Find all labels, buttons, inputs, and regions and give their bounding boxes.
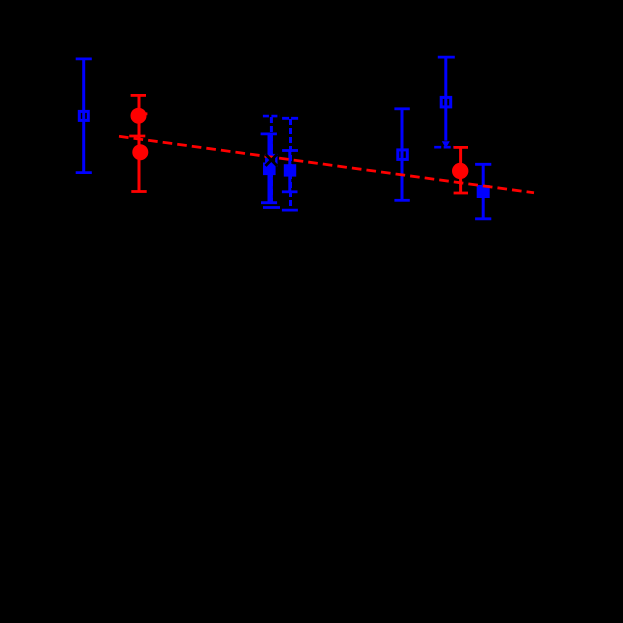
E6: red errorbar with filled circle, x=460.6 [454,147,468,193]
E7: blue errorbar with filled square, x=483.2 [475,164,491,219]
E5: blue errorbar with open square, x=402 [394,109,409,201]
E3R: cluster at x~290: dashed outer bar + solid inner bar + filled square [282,118,299,210]
E4: blue errorbar with open square and down arrow, x=445.8 [434,57,455,147]
E2: red errorbar with two filled circles, x=139 [129,95,147,191]
E3L black X marker on top [266,154,278,166]
E1: blue errorbar with open square, x=83.7 [76,59,92,173]
Trend: red dashed fit line [119,136,534,193]
E3L: cluster at x~270: dashed outer bar + solid inner bar + filled square + open square + black X [261,116,280,207]
